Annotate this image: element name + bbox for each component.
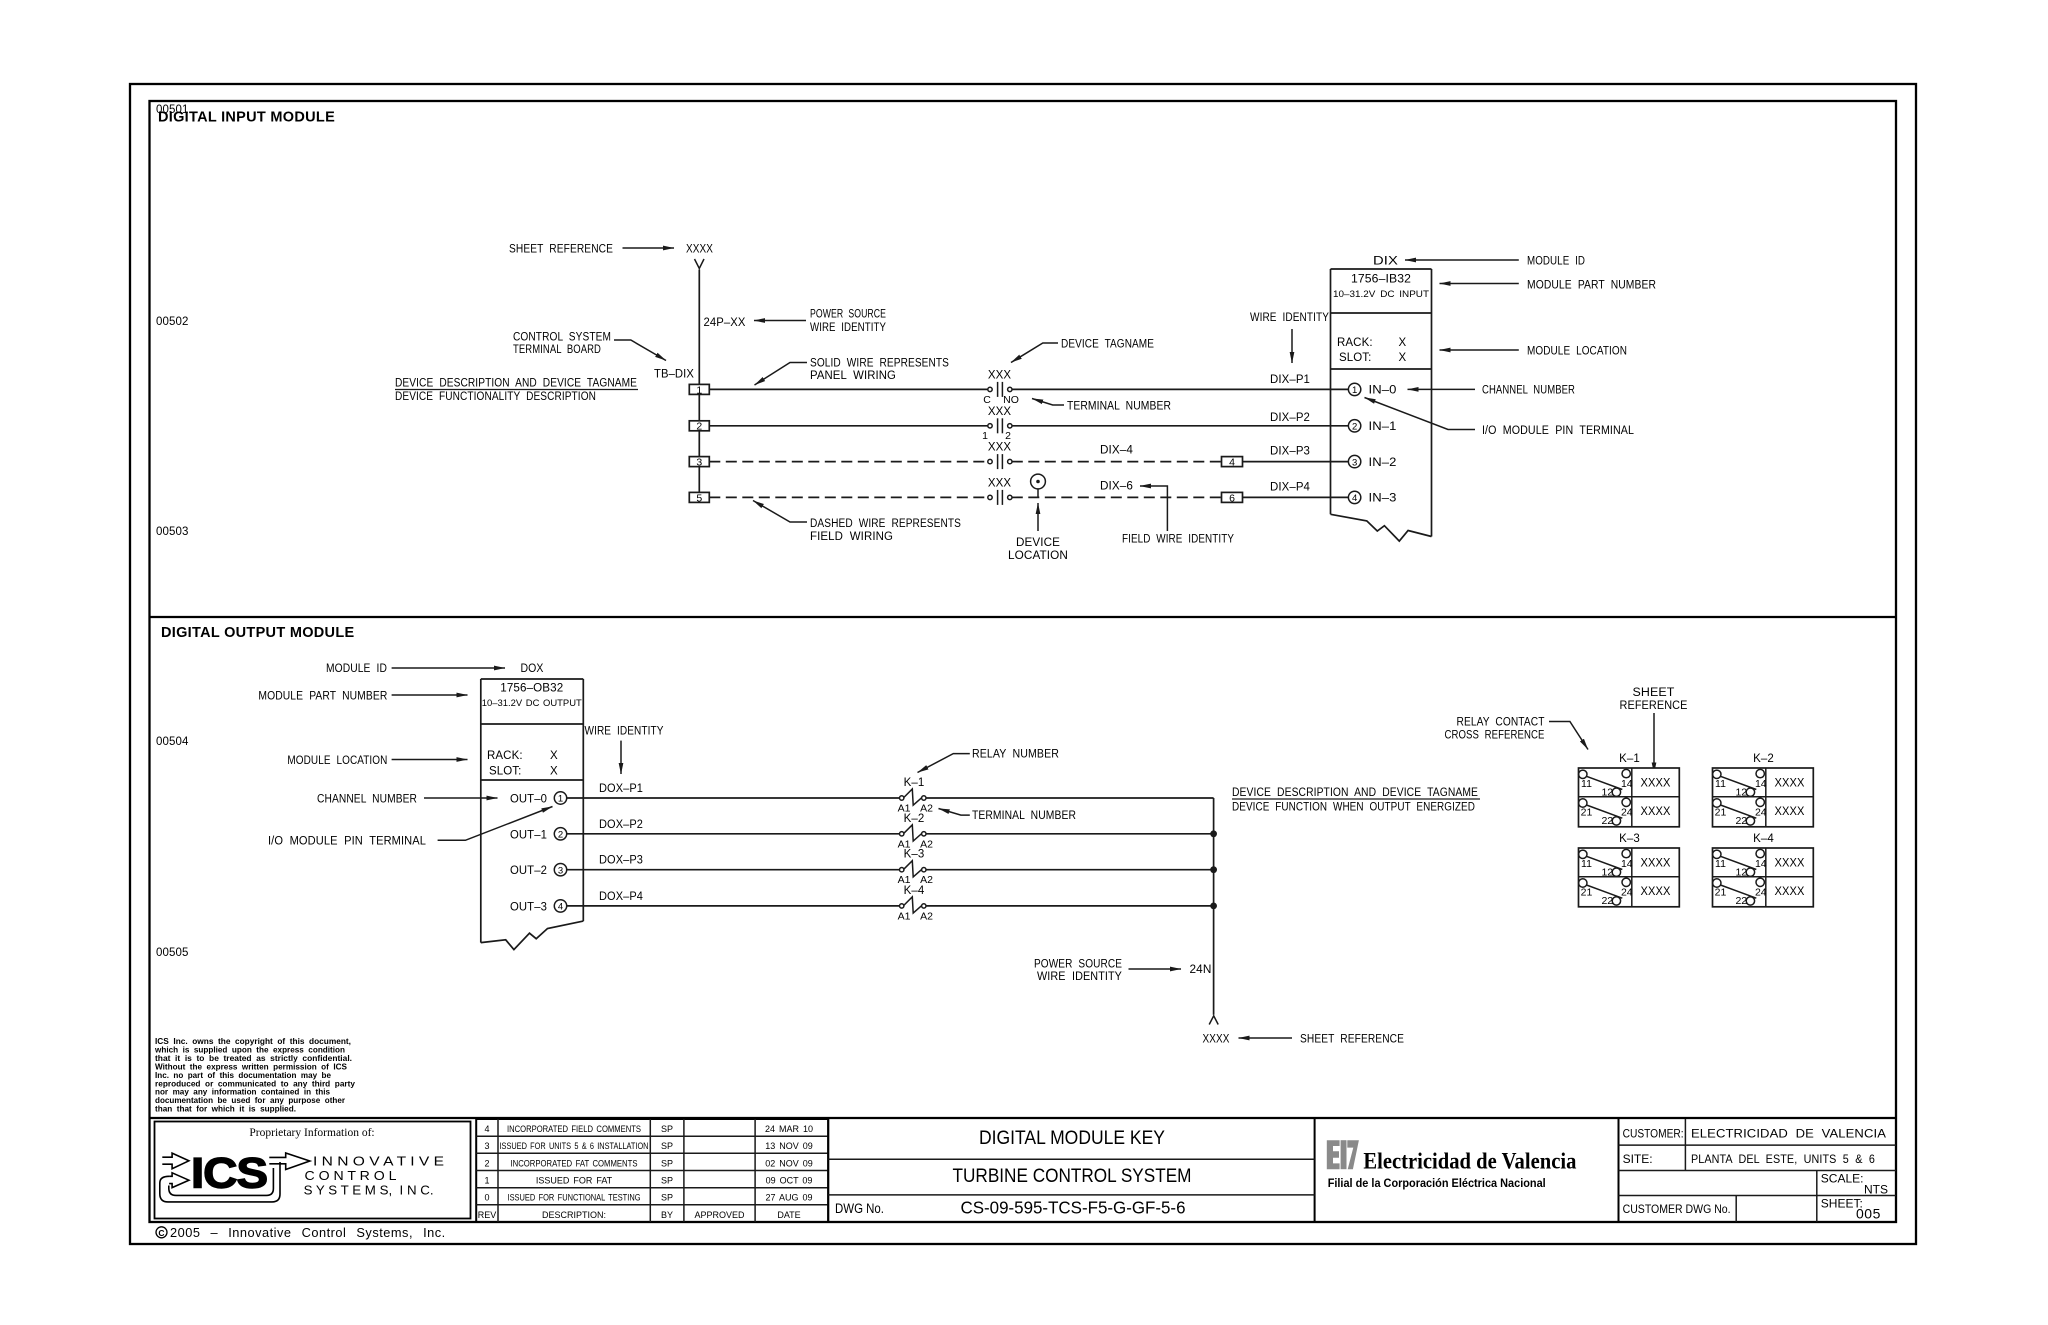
relay contact K-4 [898,885,934,923]
svg-text:WIRE IDENTITY: WIRE IDENTITY [1250,312,1329,324]
svg-text:11: 11 [1581,858,1592,870]
svg-text:XXXX: XXXX [1641,886,1671,898]
svg-text:CROSS REFERENCE: CROSS REFERENCE [1445,730,1545,742]
svg-text:APPROVED: APPROVED [694,1210,745,1220]
svg-text:4: 4 [1229,457,1235,469]
svg-text:LOCATION: LOCATION [1008,550,1068,562]
relay contact K-1 [898,777,934,815]
svg-text:SHEET: SHEET [1633,687,1675,699]
label SHEET REFERENCE with arrow (bottom) [1239,1034,1405,1046]
svg-text:MODULE ID: MODULE ID [1527,256,1585,268]
junction dot K-3 [1210,866,1217,873]
svg-text:SOLID WIRE REPRESENTS: SOLID WIRE REPRESENTS [810,358,949,370]
svg-text:2: 2 [696,421,702,433]
channel OUT-2 pin terminal 3 [510,864,567,878]
label MODULE ID with arrow [1405,256,1585,268]
svg-text:00505: 00505 [156,947,188,959]
label SOLID WIRE REPRESENTS PANEL WIRING with leader [755,358,950,386]
svg-text:NO: NO [1003,394,1019,406]
relay cross-ref table K-3 [1579,833,1680,907]
rack/slot text [487,750,558,778]
svg-text:XXXX: XXXX [1775,778,1805,790]
label DEVICE LOCATION with arrow [1008,503,1068,562]
svg-text:XXXX: XXXX [1775,858,1805,870]
svg-text:CHANNEL NUMBER: CHANNEL NUMBER [317,794,417,806]
svg-text:1: 1 [484,1176,489,1186]
svg-text:DIX–6: DIX–6 [1100,481,1133,493]
svg-text:21: 21 [1581,887,1593,899]
svg-text:K–2: K–2 [904,813,925,825]
svg-text:XXX: XXX [988,406,1012,418]
label DEVICE TAGNAME with leader [1011,339,1154,363]
svg-text:MODULE LOCATION: MODULE LOCATION [1527,346,1627,358]
label SCALE: / NTS [1821,1172,1888,1197]
wire: power source vertical bus 24P-XX [698,270,700,498]
svg-text:X: X [550,750,558,762]
svg-text:2005 – Innovative Control Syst: 2005 – Innovative Control Systems, Inc. [170,1225,446,1240]
label CONTROL SYSTEM TERMINAL BOARD with leader [513,332,666,361]
svg-text:SITE:: SITE: [1623,1152,1653,1166]
relay contact K-3 [898,849,934,887]
wire from K-2 to output bus [926,833,1214,835]
svg-text:REFERENCE: REFERENCE [1620,700,1688,712]
svg-text:SP: SP [661,1141,673,1151]
svg-text:XXXX: XXXX [1203,1034,1230,1046]
svg-text:RACK:: RACK: [487,750,523,762]
svg-text:1: 1 [1352,385,1357,396]
svg-text:SLOT:: SLOT: [489,766,521,778]
svg-text:DEVICE TAGNAME: DEVICE TAGNAME [1061,339,1154,351]
svg-text:IN–2: IN–2 [1369,457,1397,469]
svg-text:3: 3 [484,1141,489,1151]
module box 1756-IB32 [1331,269,1432,541]
label WIRE IDENTITY with down arrow [585,726,664,775]
svg-text:REV: REV [478,1210,497,1220]
svg-text:Filial de la Corporación Eléct: Filial de la Corporación Eléctrica Nacio… [1328,1176,1546,1190]
svg-text:SHEET REFERENCE: SHEET REFERENCE [1300,1034,1404,1046]
device location symbol (circle with dot) [1031,474,1046,497]
I/O pin terminal 3 / channel IN-2 [1348,455,1396,469]
EV logo [1327,1140,1359,1169]
label RELAY CONTACT CROSS REFERENCE with leader [1445,717,1589,750]
svg-text:005: 005 [1856,1206,1881,1222]
svg-text:SCALE:: SCALE: [1821,1172,1864,1186]
svg-text:K–3: K–3 [1619,833,1640,845]
wire IN-3 field wiring (dashed) left segment [709,496,988,498]
svg-text:than that for which it is supp: than that for which it is supplied. [155,1105,296,1114]
svg-text:ICS: ICS [191,1150,267,1198]
svg-text:SHEET REFERENCE: SHEET REFERENCE [509,244,613,256]
svg-text:IN–0: IN–0 [1369,385,1397,397]
contact XXX row 2 [988,406,1012,434]
svg-text:CS-09-595-TCS-F5-G-GF-5-6: CS-09-595-TCS-F5-G-GF-5-6 [961,1198,1186,1218]
contact 2 terminal labels 1 / 2 [982,430,1011,442]
wire DOX-P1 from module to relay K-1 [567,783,900,798]
svg-text:21: 21 [1715,807,1727,819]
svg-text:DIX–P2: DIX–P2 [1270,412,1310,424]
revision row 0 [484,1193,812,1203]
svg-text:13 NOV 09: 13 NOV 09 [765,1141,813,1151]
relay cross-ref table K-4 [1713,833,1814,907]
channel OUT-1 pin terminal 2 [510,828,567,842]
svg-text:1756–OB32: 1756–OB32 [500,683,563,695]
contact 1 terminal labels C / NO [983,394,1019,406]
svg-text:21: 21 [1581,807,1593,819]
label 24P-XX power source wire identity [704,309,887,335]
svg-text:CHANNEL NUMBER: CHANNEL NUMBER [1482,385,1575,397]
wire IN-2 panel segment from terminal 4 to module [1243,461,1349,463]
svg-text:PANEL WIRING: PANEL WIRING [810,370,896,382]
svg-text:DIX–P4: DIX–P4 [1270,482,1310,494]
svg-text:27 AUG 09: 27 AUG 09 [765,1193,812,1203]
svg-text:I N N O V A T I V E: I N N O V A T I V E [313,1155,444,1169]
svg-text:SP: SP [661,1176,673,1186]
svg-text:OUT–0: OUT–0 [510,794,547,806]
svg-text:K–3: K–3 [904,849,925,861]
svg-text:C: C [983,394,991,406]
svg-text:DIGITAL MODULE KEY: DIGITAL MODULE KEY [979,1128,1165,1149]
svg-text:11: 11 [1715,778,1726,790]
svg-text:2: 2 [1352,422,1357,433]
label SHEET REFERENCE with arrow [509,244,674,256]
svg-text:10–31.2V DC INPUT: 10–31.2V DC INPUT [1333,289,1429,300]
label DASHED WIRE REPRESENTS FIELD WIRING with leader [753,501,961,544]
inner drawing border [150,101,1897,1222]
svg-text:2: 2 [558,830,563,841]
svg-text:00503: 00503 [156,526,188,538]
contact XXX row 4 [988,477,1012,505]
svg-text:XXXX: XXXX [1641,806,1671,818]
wire DOX-P3 from module to relay K-3 [567,855,900,870]
svg-text:TERMINAL NUMBER: TERMINAL NUMBER [972,810,1076,822]
svg-text:SP: SP [661,1124,673,1134]
svg-text:PLANTA DEL ESTE, UNITS 5 & 6: PLANTA DEL ESTE, UNITS 5 & 6 [1691,1154,1875,1166]
svg-text:22: 22 [1735,895,1747,907]
svg-text:DEVICE FUNCTIONALITY DESCRIPTI: DEVICE FUNCTIONALITY DESCRIPTION [395,391,596,403]
label MODULE PART NUMBER with arrow [1440,280,1657,292]
svg-text:ISSUED FOR UNITS 5 & 6 INSTALL: ISSUED FOR UNITS 5 & 6 INSTALLATION [500,1141,649,1151]
svg-text:MODULE LOCATION: MODULE LOCATION [287,755,387,767]
svg-text:22: 22 [1735,815,1747,827]
svg-text:14: 14 [1621,858,1633,870]
svg-text:14: 14 [1755,858,1767,870]
label WIRE IDENTITY with down arrow [1250,312,1329,363]
contact XXX row 3 [988,442,1012,470]
label CHANNEL NUMBER with arrow [317,794,498,806]
relay contact K-2 [898,813,934,851]
wire IN-3 dashed segment to terminal 6 [1012,496,1222,498]
svg-text:10–31.2V DC OUTPUT: 10–31.2V DC OUTPUT [482,698,582,709]
svg-text:CUSTOMER:: CUSTOMER: [1623,1127,1684,1141]
wire from K-1 to output bus [926,797,1214,799]
svg-text:22: 22 [1601,895,1613,907]
svg-text:Electricidad de Valencia: Electricidad de Valencia [1363,1149,1576,1175]
svg-text:DASHED WIRE REPRESENTS: DASHED WIRE REPRESENTS [810,518,961,530]
svg-text:WIRE IDENTITY: WIRE IDENTITY [1037,971,1122,983]
svg-text:DOX–P4: DOX–P4 [599,891,643,903]
svg-text:XXX: XXX [988,442,1012,454]
svg-text:XXX: XXX [988,369,1012,381]
svg-text:CONTROL SYSTEM: CONTROL SYSTEM [513,332,611,344]
svg-text:X: X [1399,337,1407,349]
svg-text:K–4: K–4 [1753,833,1774,845]
label I/O MODULE PIN TERMINAL with leader [1365,398,1635,438]
label SHEET: / 005 [1821,1197,1881,1222]
svg-text:00504: 00504 [156,736,189,748]
company name INNOVATIVE CONTROL SYSTEMS, INC. [304,1155,444,1198]
svg-text:WIRE IDENTITY: WIRE IDENTITY [810,322,886,334]
svg-text:POWER SOURCE: POWER SOURCE [810,309,886,321]
svg-text:DIX–P1: DIX–P1 [1270,374,1310,386]
wire IN-1 right segment to module [1012,425,1349,427]
svg-text:24: 24 [1621,807,1633,819]
svg-text:MODULE PART NUMBER: MODULE PART NUMBER [1527,280,1656,292]
section divider line between input and output modules [150,616,1897,618]
svg-text:DIX–4: DIX–4 [1100,445,1134,457]
label MODULE ID with arrow [326,663,505,675]
svg-text:DEVICE DESCRIPTION AND DEVICE: DEVICE DESCRIPTION AND DEVICE TAGNAME [1232,787,1478,799]
svg-text:21: 21 [1715,887,1727,899]
svg-text:INCORPORATED FIELD COMMENTS: INCORPORATED FIELD COMMENTS [507,1124,641,1134]
off-sheet chevron [695,259,705,269]
svg-text:MODULE PART NUMBER: MODULE PART NUMBER [258,691,387,703]
svg-text:DOX–P2: DOX–P2 [599,819,643,831]
wire IN-0 right segment to module [1012,388,1349,390]
svg-text:IN–3: IN–3 [1369,493,1397,505]
label I/O MODULE PIN TERMINAL with leader [268,807,553,848]
svg-text:3: 3 [1352,457,1357,468]
svg-text:3: 3 [558,865,563,876]
net label DIX-6 with leader from FIELD WIRE IDENTITY [1100,481,1234,546]
terminal box 3 on TB-DIX [689,457,709,469]
svg-text:DESCRIPTION:: DESCRIPTION: [542,1210,606,1220]
svg-text:1756–IB32: 1756–IB32 [1351,274,1411,286]
svg-text:OUT–3: OUT–3 [510,901,547,913]
svg-text:OUT–2: OUT–2 [510,865,547,877]
svg-text:12: 12 [1735,867,1747,879]
svg-text:24N: 24N [1190,964,1212,976]
label device description (input) [395,378,638,404]
svg-text:SP: SP [661,1193,673,1203]
svg-text:A2: A2 [920,910,933,922]
channel OUT-3 pin terminal 4 [510,900,567,914]
svg-text:14: 14 [1755,778,1767,790]
svg-text:FIELD WIRE IDENTITY: FIELD WIRE IDENTITY [1122,534,1234,546]
I/O pin terminal 2 / channel IN-1 [1348,420,1396,434]
svg-text:DWG No.: DWG No. [835,1201,884,1216]
svg-text:FIELD WIRING: FIELD WIRING [810,531,893,543]
terminal box 5 on TB-DIX [689,492,709,504]
svg-text:2: 2 [484,1158,489,1168]
label TERMINAL NUMBER with leader [1032,399,1171,413]
svg-text:6: 6 [1229,492,1235,504]
wire IN-1 panel wiring (solid) left segment [709,425,988,427]
svg-text:1: 1 [558,794,563,805]
revision row 3 [484,1141,812,1151]
svg-text:DEVICE: DEVICE [1016,537,1060,549]
svg-text:RELAY NUMBER: RELAY NUMBER [972,749,1059,761]
svg-text:ISSUED FOR FUNCTIONAL TESTING: ISSUED FOR FUNCTIONAL TESTING [508,1193,641,1203]
svg-text:WIRE IDENTITY: WIRE IDENTITY [585,726,664,738]
I/O pin terminal 1 / channel IN-0 [1348,383,1396,397]
wire from K-4 to output bus [926,905,1214,907]
svg-text:DOX: DOX [521,663,544,675]
label device description (output) [1232,787,1480,814]
customer info section [1619,1119,1897,1222]
svg-text:24: 24 [1755,887,1767,899]
svg-text:3: 3 [696,457,702,469]
svg-text:SP: SP [661,1158,673,1168]
svg-text:BY: BY [661,1210,673,1220]
svg-text:RACK:: RACK: [1337,337,1373,349]
svg-text:X: X [550,766,558,778]
channel OUT-0 pin terminal 1 [510,792,567,806]
terminal box 1 on TB-DIX [689,384,709,396]
svg-text:DIGITAL OUTPUT MODULE: DIGITAL OUTPUT MODULE [161,625,354,641]
svg-text:S Y S T E M S, I N C.: S Y S T E M S, I N C. [304,1183,434,1197]
revision row 4 [484,1124,813,1134]
svg-text:Proprietary Information of:: Proprietary Information of: [249,1127,374,1139]
svg-text:09 OCT 09: 09 OCT 09 [766,1176,813,1186]
junction dot K-2 [1210,830,1217,837]
svg-text:4: 4 [1352,493,1357,504]
label MODULE PART NUMBER with arrow [258,691,467,703]
svg-text:12: 12 [1735,787,1747,799]
outer page border [130,84,1916,1244]
svg-text:POWER SOURCE: POWER SOURCE [1034,959,1122,971]
ICS copyright notice paragraph [154,1037,356,1114]
svg-text:TERMINAL NUMBER: TERMINAL NUMBER [1067,401,1171,413]
label POWER SOURCE WIRE IDENTITY with arrow [1034,959,1181,984]
svg-text:XXXX: XXXX [1641,778,1671,790]
svg-text:I/O MODULE PIN TERMINAL: I/O MODULE PIN TERMINAL [268,836,426,848]
svg-text:DEVICE DESCRIPTION AND DEVICE: DEVICE DESCRIPTION AND DEVICE TAGNAME [395,378,637,390]
ICS proprietary box [155,1122,471,1219]
svg-text:1: 1 [696,384,702,396]
label MODULE LOCATION with arrow [1440,346,1628,358]
svg-text:DOX–P1: DOX–P1 [599,783,643,795]
svg-text:DOX–P3: DOX–P3 [599,855,643,867]
svg-text:11: 11 [1715,858,1726,870]
svg-text:ELECTRICIDAD DE VALENCIA: ELECTRICIDAD DE VALENCIA [1691,1129,1886,1141]
svg-text:14: 14 [1621,778,1633,790]
svg-text:NTS: NTS [1864,1183,1888,1197]
svg-text:5: 5 [696,492,702,504]
svg-text:24 MAR 10: 24 MAR 10 [765,1124,813,1134]
I/O pin terminal 4 / channel IN-3 [1348,491,1396,505]
module box 1756-OB32 [481,679,584,950]
copyright line [156,1225,446,1240]
svg-text:XXXX: XXXX [1641,858,1671,870]
svg-text:RELAY CONTACT: RELAY CONTACT [1457,717,1545,729]
output power bus vertical [1213,798,1215,1015]
svg-text:24: 24 [1755,807,1767,819]
svg-text:11: 11 [1581,778,1592,790]
svg-text:K–1: K–1 [904,777,925,789]
svg-text:DATE: DATE [777,1210,800,1220]
label TERMINAL NUMBER with leader [939,809,1077,823]
revision table [476,1119,828,1222]
svg-text:TERMINAL BOARD: TERMINAL BOARD [513,344,601,356]
label CHANNEL NUMBER with arrow [1408,385,1576,397]
svg-text:C: C [158,1228,164,1238]
contact XXX row 1 [988,369,1012,397]
svg-text:I/O MODULE PIN TERMINAL: I/O MODULE PIN TERMINAL [1482,425,1634,437]
revision row 2 [484,1158,812,1168]
junction dot K-4 [1210,903,1217,910]
wire IN-3 panel segment from terminal 6 to module [1243,496,1349,498]
svg-text:DIX–P3: DIX–P3 [1270,446,1310,458]
svg-text:4: 4 [484,1124,489,1134]
svg-text:02 NOV 09: 02 NOV 09 [765,1158,813,1168]
off-sheet chevron (bottom) [1209,1016,1218,1025]
svg-text:4: 4 [558,902,563,913]
ICS logo [160,1153,310,1202]
svg-text:A1: A1 [898,910,911,922]
svg-text:TURBINE CONTROL SYSTEM: TURBINE CONTROL SYSTEM [953,1166,1192,1187]
svg-text:DIX: DIX [1373,256,1398,268]
svg-text:INCORPORATED FAT COMMENTS: INCORPORATED FAT COMMENTS [511,1158,638,1168]
svg-text:C O N T R O L: C O N T R O L [305,1169,397,1183]
drawing title section [828,1119,1314,1222]
svg-text:12: 12 [1601,867,1613,879]
inline terminal box 4 [1222,457,1243,469]
relay cross-ref table K-2 [1713,753,1814,827]
svg-text:K–1: K–1 [1619,753,1640,765]
svg-text:MODULE ID: MODULE ID [326,663,387,675]
svg-text:2: 2 [1005,430,1011,442]
label MODULE LOCATION with arrow [287,755,467,767]
wire DOX-P4 from module to relay K-4 [567,891,900,906]
svg-text:ISSUED FOR FAT: ISSUED FOR FAT [536,1176,613,1186]
svg-text:XXX: XXX [988,477,1012,489]
svg-text:K–4: K–4 [904,885,925,897]
rack/slot text [1337,337,1407,364]
revision row REV [478,1210,801,1220]
wire IN-2 dashed segment to terminal 4 [1012,461,1222,463]
svg-text:XXXX: XXXX [1775,806,1805,818]
label RELAY NUMBER with leader [918,749,1060,773]
svg-text:K–2: K–2 [1753,753,1774,765]
terminal box 2 on TB-DIX [689,421,709,433]
svg-text:24P–XX: 24P–XX [704,317,746,329]
svg-text:DIGITAL INPUT MODULE: DIGITAL INPUT MODULE [158,110,335,126]
svg-text:24: 24 [1621,887,1633,899]
svg-text:XXXX: XXXX [686,244,713,256]
svg-text:CUSTOMER DWG No.: CUSTOMER DWG No. [1623,1202,1731,1216]
wire from K-3 to output bus [926,869,1214,871]
wire DOX-P2 from module to relay K-2 [567,819,900,834]
svg-text:SLOT:: SLOT: [1339,352,1371,364]
wire IN-2 field wiring (dashed) left segment [709,461,988,463]
svg-text:XXXX: XXXX [1775,886,1805,898]
svg-text:12: 12 [1601,787,1613,799]
label SHEET REFERENCE with down arrow [1620,687,1688,774]
svg-text:1: 1 [982,430,988,442]
inline terminal box 6 [1222,492,1243,504]
relay cross-ref table K-1 [1579,753,1680,827]
svg-text:0: 0 [484,1193,489,1203]
svg-text:00502: 00502 [156,316,188,328]
svg-text:OUT–1: OUT–1 [510,829,547,841]
svg-text:22: 22 [1601,815,1613,827]
svg-text:IN–1: IN–1 [1369,421,1397,433]
svg-text:X: X [1399,352,1407,364]
title block top border [150,1117,1897,1119]
svg-text:DEVICE FUNCTION WHEN OUTPUT EN: DEVICE FUNCTION WHEN OUTPUT ENERGIZED [1232,802,1475,814]
svg-text:TB–DIX: TB–DIX [654,369,694,381]
revision row 1 [484,1176,812,1186]
